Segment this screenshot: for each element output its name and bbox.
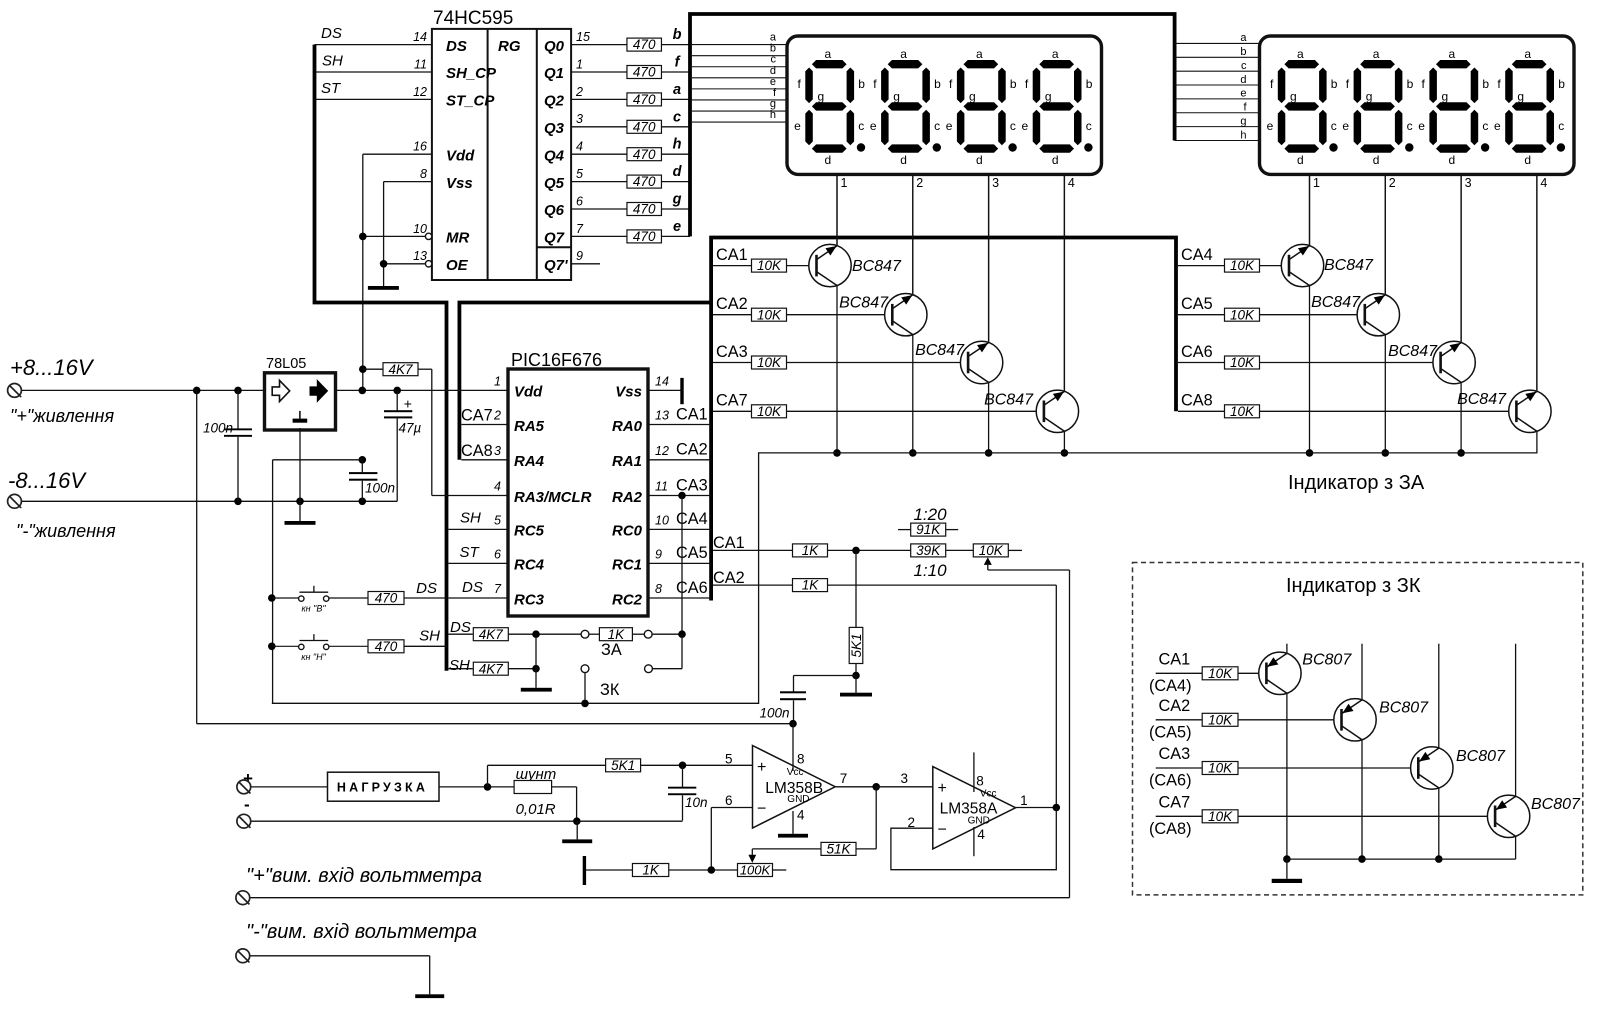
svg-text:CA1: CA1 — [676, 405, 708, 423]
svg-text:100n: 100n — [365, 481, 395, 496]
svg-text:CA7: CA7 — [1159, 793, 1191, 811]
svg-text:8: 8 — [420, 167, 427, 181]
svg-text:DS: DS — [462, 579, 483, 596]
svg-text:12: 12 — [413, 85, 427, 99]
svg-text:10K: 10K — [979, 543, 1004, 558]
svg-text:1K: 1K — [642, 863, 660, 878]
svg-text:g: g — [1366, 89, 1373, 103]
svg-text:+8...16V: +8...16V — [10, 355, 95, 380]
svg-text:RA1: RA1 — [612, 453, 642, 470]
svg-text:3: 3 — [576, 112, 583, 126]
svg-text:10K: 10K — [1230, 355, 1255, 370]
svg-text:470: 470 — [633, 92, 656, 107]
svg-text:11: 11 — [655, 480, 668, 494]
svg-text:100K: 100K — [740, 863, 772, 878]
svg-text:e: e — [1418, 119, 1425, 133]
svg-text:CA2: CA2 — [713, 569, 745, 587]
svg-text:MR: MR — [446, 230, 469, 247]
svg-text:b: b — [1086, 77, 1093, 91]
svg-text:10n: 10n — [685, 795, 708, 810]
svg-text:BC847: BC847 — [839, 295, 889, 312]
svg-text:Q3: Q3 — [544, 120, 565, 137]
svg-text:13: 13 — [655, 409, 669, 423]
svg-text:c: c — [1241, 60, 1247, 72]
svg-text:e: e — [946, 119, 953, 133]
svg-text:51K: 51K — [826, 842, 851, 857]
svg-text:2: 2 — [916, 176, 923, 190]
svg-text:RC5: RC5 — [514, 523, 545, 540]
svg-text:CA3: CA3 — [716, 343, 748, 361]
svg-text:4: 4 — [797, 808, 805, 823]
svg-text:10: 10 — [413, 222, 427, 236]
svg-text:e: e — [673, 219, 681, 235]
svg-text:470: 470 — [633, 65, 656, 80]
svg-text:1: 1 — [494, 374, 501, 388]
svg-text:11: 11 — [414, 57, 427, 71]
svg-text:10K: 10K — [1208, 712, 1233, 727]
svg-text:470: 470 — [633, 174, 656, 189]
svg-text:470: 470 — [633, 37, 656, 52]
svg-text:10K: 10K — [1230, 404, 1255, 419]
svg-text:b: b — [673, 27, 682, 43]
svg-text:CA3: CA3 — [1159, 745, 1191, 763]
svg-text:c: c — [858, 119, 864, 133]
svg-text:8: 8 — [655, 582, 662, 596]
svg-text:Індикатор з ЗА: Індикатор з ЗА — [1288, 472, 1425, 494]
svg-text:CA4: CA4 — [676, 510, 708, 528]
svg-text:CA7: CA7 — [461, 407, 493, 425]
svg-text:e: e — [870, 119, 877, 133]
svg-text:кн "Н": кн "Н" — [301, 652, 326, 662]
svg-text:e: e — [1494, 119, 1501, 133]
svg-text:5: 5 — [725, 752, 733, 767]
svg-text:1: 1 — [841, 176, 848, 190]
svg-text:RA0: RA0 — [612, 418, 643, 435]
svg-text:1K: 1K — [608, 627, 626, 642]
svg-text:SH: SH — [449, 657, 470, 674]
svg-text:DS: DS — [321, 25, 342, 42]
svg-text:100n: 100n — [760, 706, 790, 721]
svg-text:Vdd: Vdd — [446, 147, 475, 164]
svg-text:BC847: BC847 — [984, 392, 1034, 409]
svg-text:a: a — [1373, 47, 1380, 61]
svg-text:d: d — [900, 153, 907, 167]
svg-text:-: - — [244, 795, 250, 814]
svg-text:ЗК: ЗК — [600, 681, 620, 699]
svg-text:10: 10 — [655, 513, 669, 527]
svg-text:16: 16 — [413, 140, 427, 154]
svg-text:(CA8): (CA8) — [1149, 820, 1192, 838]
svg-text:12: 12 — [655, 444, 669, 458]
svg-text:470: 470 — [633, 229, 656, 244]
svg-text:Q6: Q6 — [544, 202, 565, 219]
svg-text:a: a — [673, 82, 681, 98]
svg-text:DS: DS — [416, 580, 437, 597]
svg-text:10K: 10K — [757, 258, 782, 273]
svg-text:Q2: Q2 — [544, 93, 565, 110]
svg-text:b: b — [1240, 46, 1246, 58]
svg-text:4K7: 4K7 — [388, 362, 413, 377]
svg-text:OE: OE — [446, 257, 469, 274]
svg-text:c: c — [1482, 119, 1488, 133]
svg-text:4: 4 — [576, 140, 583, 154]
svg-text:CA8: CA8 — [1181, 392, 1213, 410]
svg-text:(CA6): (CA6) — [1149, 772, 1192, 790]
svg-text:c: c — [1331, 119, 1337, 133]
svg-text:Індикатор з ЗК: Індикатор з ЗК — [1286, 575, 1421, 597]
svg-text:"+"живлення: "+"живлення — [10, 406, 114, 426]
svg-text:e: e — [794, 119, 801, 133]
svg-text:ST: ST — [321, 80, 342, 97]
svg-text:"-"вим. вхід вольтметра: "-"вим. вхід вольтметра — [246, 921, 477, 943]
svg-text:CA2: CA2 — [716, 295, 748, 313]
svg-text:4: 4 — [494, 480, 501, 494]
svg-text:10K: 10K — [1208, 761, 1233, 776]
svg-text:3: 3 — [900, 771, 908, 786]
svg-text:g: g — [817, 89, 824, 103]
svg-text:10K: 10K — [1208, 809, 1233, 824]
svg-text:"+"вим. вхід вольтметра: "+"вим. вхід вольтметра — [246, 865, 482, 887]
svg-text:CA6: CA6 — [1181, 343, 1213, 361]
svg-text:SH: SH — [460, 510, 481, 527]
svg-text:5: 5 — [494, 513, 501, 527]
svg-text:d: d — [1449, 153, 1456, 167]
svg-text:91K: 91K — [916, 522, 941, 537]
svg-text:НАГРУЗКА: НАГРУЗКА — [337, 780, 428, 794]
svg-text:9: 9 — [655, 547, 662, 561]
svg-text:1K: 1K — [802, 543, 820, 558]
svg-text:b: b — [934, 77, 941, 91]
svg-text:74HC595: 74HC595 — [433, 8, 513, 29]
svg-text:c: c — [1407, 119, 1413, 133]
svg-text:кн "В": кн "В" — [301, 604, 326, 614]
svg-text:(CA4): (CA4) — [1149, 677, 1192, 695]
svg-text:7: 7 — [494, 582, 502, 596]
svg-text:c: c — [1010, 119, 1016, 133]
svg-text:c: c — [1558, 119, 1564, 133]
svg-text:470: 470 — [375, 591, 398, 606]
svg-text:d: d — [1240, 74, 1246, 86]
svg-text:GND: GND — [968, 816, 990, 827]
svg-text:−: − — [757, 801, 766, 818]
svg-text:3: 3 — [1465, 176, 1472, 190]
svg-text:6: 6 — [494, 547, 501, 561]
svg-text:1: 1 — [576, 57, 583, 71]
svg-text:470: 470 — [633, 119, 656, 134]
svg-text:-8...16V: -8...16V — [8, 468, 87, 493]
svg-text:g: g — [1240, 115, 1246, 127]
svg-text:4K7: 4K7 — [479, 661, 504, 676]
svg-text:2: 2 — [575, 85, 583, 99]
svg-text:a: a — [900, 47, 907, 61]
svg-text:BC847: BC847 — [1311, 294, 1361, 311]
svg-text:BC847: BC847 — [1324, 257, 1374, 274]
svg-text:9: 9 — [576, 249, 583, 263]
svg-text:RC0: RC0 — [612, 523, 643, 540]
svg-text:BC847: BC847 — [915, 342, 965, 359]
svg-text:g: g — [1045, 89, 1052, 103]
svg-text:a: a — [976, 47, 983, 61]
svg-text:d: d — [824, 153, 831, 167]
svg-text:c: c — [934, 119, 940, 133]
svg-text:RG: RG — [498, 38, 521, 55]
svg-text:BC807: BC807 — [1379, 700, 1429, 717]
svg-text:RC3: RC3 — [514, 591, 545, 608]
svg-text:CA4: CA4 — [1181, 246, 1213, 264]
svg-text:a: a — [1524, 47, 1531, 61]
svg-text:39K: 39K — [916, 543, 941, 558]
svg-text:BC807: BC807 — [1302, 651, 1352, 668]
svg-text:b: b — [1482, 77, 1489, 91]
svg-text:PIC16F676: PIC16F676 — [511, 350, 602, 370]
svg-text:1:20: 1:20 — [913, 505, 947, 524]
svg-text:13: 13 — [413, 249, 427, 263]
svg-text:SH: SH — [322, 53, 343, 70]
svg-text:+: + — [757, 759, 766, 776]
svg-text:h: h — [1240, 129, 1246, 141]
svg-text:h: h — [770, 109, 776, 121]
svg-text:CA8: CA8 — [461, 442, 493, 460]
svg-text:14: 14 — [655, 374, 669, 388]
svg-text:"-"живлення: "-"живлення — [16, 521, 116, 541]
svg-text:DS: DS — [446, 38, 467, 55]
svg-text:10K: 10K — [1208, 666, 1233, 681]
svg-text:4: 4 — [1068, 176, 1075, 190]
svg-text:RC4: RC4 — [514, 557, 545, 574]
svg-text:BC847: BC847 — [852, 258, 902, 275]
svg-text:RA4: RA4 — [514, 453, 545, 470]
svg-text:RC1: RC1 — [612, 557, 642, 574]
svg-text:Vcc: Vcc — [787, 767, 804, 778]
svg-text:2: 2 — [1389, 176, 1396, 190]
svg-text:d: d — [1373, 153, 1380, 167]
svg-text:g: g — [969, 89, 976, 103]
svg-text:1:10: 1:10 — [913, 561, 947, 580]
svg-text:g: g — [672, 192, 682, 208]
svg-text:d: d — [1052, 153, 1059, 167]
svg-text:0,01R: 0,01R — [516, 801, 556, 818]
svg-text:ST_CP: ST_CP — [446, 93, 495, 110]
svg-text:47µ: 47µ — [399, 421, 422, 436]
svg-text:1: 1 — [1313, 176, 1320, 190]
svg-text:CA1: CA1 — [713, 534, 745, 552]
svg-text:CA2: CA2 — [676, 441, 708, 459]
svg-text:RC2: RC2 — [612, 591, 643, 608]
svg-text:Q7': Q7' — [544, 257, 568, 274]
svg-text:10K: 10K — [1230, 307, 1255, 322]
svg-text:b: b — [858, 77, 865, 91]
svg-text:e: e — [1342, 119, 1349, 133]
svg-text:d: d — [1524, 153, 1531, 167]
svg-text:Q1: Q1 — [544, 65, 564, 82]
svg-text:e: e — [1240, 88, 1246, 100]
svg-text:BC807: BC807 — [1531, 796, 1581, 813]
svg-text:10K: 10K — [757, 355, 782, 370]
svg-text:RA2: RA2 — [612, 489, 643, 506]
svg-text:d: d — [673, 164, 683, 180]
svg-text:d: d — [976, 153, 983, 167]
svg-text:−: − — [938, 822, 947, 839]
svg-text:Vdd: Vdd — [514, 384, 543, 401]
svg-text:100n: 100n — [203, 421, 233, 436]
svg-text:+: + — [938, 780, 947, 797]
svg-text:BC847: BC847 — [1388, 343, 1438, 360]
svg-text:CA1: CA1 — [716, 246, 748, 264]
svg-text:8: 8 — [797, 752, 805, 767]
svg-text:10K: 10K — [757, 404, 782, 419]
svg-text:15: 15 — [576, 30, 590, 44]
svg-text:g: g — [1442, 89, 1449, 103]
svg-text:b: b — [1010, 77, 1017, 91]
svg-text:b: b — [1407, 77, 1414, 91]
svg-text:Q0: Q0 — [544, 38, 565, 55]
svg-text:GND: GND — [787, 794, 809, 805]
svg-text:SH: SH — [419, 628, 440, 645]
svg-text:2: 2 — [493, 409, 501, 423]
svg-text:1: 1 — [1020, 793, 1028, 808]
svg-text:Q7: Q7 — [544, 230, 565, 247]
svg-text:7: 7 — [576, 222, 584, 236]
svg-text:a: a — [824, 47, 831, 61]
svg-text:a: a — [1449, 47, 1456, 61]
svg-text:4: 4 — [977, 827, 985, 842]
svg-text:a: a — [1052, 47, 1059, 61]
svg-text:5K1: 5K1 — [611, 758, 635, 773]
svg-text:8: 8 — [976, 774, 984, 789]
svg-text:b: b — [1331, 77, 1338, 91]
svg-text:6: 6 — [725, 793, 733, 808]
svg-text:470: 470 — [633, 202, 656, 217]
svg-text:5K1: 5K1 — [849, 633, 864, 657]
svg-text:g: g — [1290, 89, 1297, 103]
svg-text:Q4: Q4 — [544, 147, 565, 164]
svg-text:5: 5 — [576, 167, 583, 181]
svg-text:(CA5): (CA5) — [1149, 723, 1192, 741]
svg-text:CA3: CA3 — [676, 476, 708, 494]
svg-text:Vcc: Vcc — [980, 789, 997, 800]
svg-text:Q5: Q5 — [544, 175, 565, 192]
svg-text:g: g — [893, 89, 900, 103]
svg-text:3: 3 — [992, 176, 999, 190]
svg-text:6: 6 — [576, 194, 583, 208]
svg-text:14: 14 — [413, 30, 427, 44]
svg-text:CA5: CA5 — [1181, 295, 1213, 313]
svg-text:CA6: CA6 — [676, 579, 708, 597]
svg-text:470: 470 — [633, 147, 656, 162]
svg-text:4: 4 — [1540, 176, 1547, 190]
svg-text:78L05: 78L05 — [266, 356, 306, 372]
svg-text:a: a — [1297, 47, 1304, 61]
svg-text:1K: 1K — [802, 578, 820, 593]
svg-text:BC847: BC847 — [1457, 391, 1507, 408]
svg-text:Vss: Vss — [615, 384, 642, 401]
svg-text:e: e — [1022, 119, 1029, 133]
svg-text:e: e — [1267, 119, 1274, 133]
svg-text:CA7: CA7 — [716, 392, 748, 410]
svg-text:g: g — [1517, 89, 1524, 103]
svg-text:10K: 10K — [757, 307, 782, 322]
svg-text:CA1: CA1 — [1159, 650, 1191, 668]
svg-text:c: c — [1086, 119, 1092, 133]
svg-text:BC807: BC807 — [1456, 748, 1506, 765]
svg-text:a: a — [1240, 32, 1247, 44]
svg-text:DS: DS — [450, 619, 471, 636]
svg-text:h: h — [673, 137, 682, 153]
svg-text:10K: 10K — [1230, 258, 1255, 273]
svg-text:CA5: CA5 — [676, 544, 708, 562]
svg-text:b: b — [1558, 77, 1565, 91]
svg-text:d: d — [1297, 153, 1304, 167]
svg-text:4K7: 4K7 — [479, 627, 504, 642]
svg-text:RA5: RA5 — [514, 418, 545, 435]
svg-text:ST: ST — [460, 544, 481, 561]
svg-text:RA3/MCLR: RA3/MCLR — [514, 489, 592, 506]
svg-text:c: c — [673, 109, 681, 125]
svg-text:ЗА: ЗА — [601, 641, 622, 659]
svg-text:SH_CP: SH_CP — [446, 65, 497, 82]
svg-text:+: + — [404, 396, 412, 412]
svg-text:Vss: Vss — [446, 175, 473, 192]
svg-text:7: 7 — [840, 771, 848, 786]
svg-text:470: 470 — [375, 639, 398, 654]
svg-text:3: 3 — [494, 444, 501, 458]
svg-text:CA2: CA2 — [1159, 697, 1191, 715]
